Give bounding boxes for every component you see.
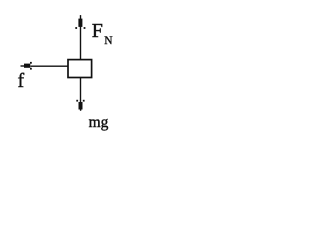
svg-text:f: f: [18, 70, 25, 92]
arrowhead: friction force f (left): [21, 62, 32, 70]
arrowhead: normal force F_N (up): [75, 15, 85, 29]
wire: friction force stem: [31, 65, 69, 67]
wire: gravity force stem: [80, 78, 82, 104]
svg-text:N: N: [104, 35, 113, 47]
box (object): [68, 60, 92, 78]
arrowhead: gravity force mg (down): [76, 100, 84, 111]
label mg: [89, 114, 109, 131]
wire: normal force stem: [80, 26, 82, 60]
svg-text:F: F: [92, 20, 103, 42]
label f: [18, 70, 25, 92]
label F_N: [92, 20, 114, 47]
svg-text:mg: mg: [89, 114, 109, 131]
